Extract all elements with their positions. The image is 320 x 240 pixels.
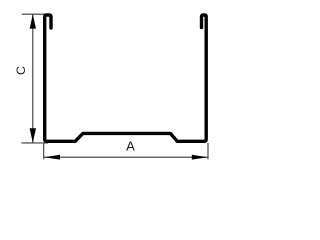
svg-text:C: C	[14, 66, 28, 75]
svg-text:A: A	[126, 138, 135, 153]
